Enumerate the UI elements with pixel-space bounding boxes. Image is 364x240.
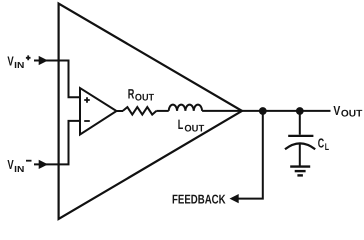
svg-text:L: L bbox=[325, 142, 329, 153]
arrowhead feedback bbox=[230, 194, 239, 203]
svg-text:V: V bbox=[333, 103, 340, 118]
junction dot CL node bbox=[296, 107, 304, 115]
wire output line bbox=[202, 110, 330, 112]
resistor ROUT bbox=[123, 107, 157, 115]
junction dot feedback node bbox=[259, 107, 267, 115]
wire VIN+ input bbox=[34, 61, 80, 98]
wire VIN- input bbox=[34, 121, 80, 164]
arrowhead VIN+ bbox=[39, 56, 48, 65]
wire CL node down bbox=[299, 111, 301, 135]
ground bbox=[290, 165, 310, 167]
svg-text:V: V bbox=[7, 157, 14, 172]
label ROUT bbox=[128, 87, 154, 104]
label CL bbox=[318, 135, 329, 153]
svg-text:IN: IN bbox=[14, 164, 24, 174]
op-amp U1 bbox=[80, 88, 117, 135]
svg-text:V: V bbox=[7, 53, 14, 68]
capacitor CL top plate bbox=[288, 135, 313, 137]
svg-text:FEEDBACK: FEEDBACK bbox=[172, 192, 226, 207]
svg-text:C: C bbox=[318, 135, 325, 150]
label VIN+ bbox=[7, 53, 30, 70]
arrowhead VIN- bbox=[39, 160, 48, 169]
capacitor CL curved bottom plate bbox=[285, 143, 315, 149]
wire op-amp output bbox=[117, 110, 124, 112]
svg-text:L: L bbox=[178, 117, 184, 132]
wire feedback bbox=[238, 111, 263, 199]
inductor LOUT bbox=[169, 105, 202, 111]
svg-text:R: R bbox=[128, 87, 135, 102]
svg-text:OUT: OUT bbox=[341, 109, 362, 120]
op-amp plus input symbol bbox=[84, 97, 90, 103]
label LOUT bbox=[178, 117, 205, 134]
wire resistor to inductor bbox=[156, 110, 168, 112]
svg-text:IN: IN bbox=[14, 60, 24, 70]
wire CL to ground bbox=[299, 144, 301, 166]
svg-text:OUT: OUT bbox=[184, 123, 204, 134]
label VOUT bbox=[333, 103, 362, 120]
amplifier big triangle bbox=[59, 4, 242, 219]
label VIN- bbox=[7, 157, 31, 174]
svg-text:OUT: OUT bbox=[135, 93, 154, 104]
op-amp minus input symbol bbox=[84, 120, 90, 122]
